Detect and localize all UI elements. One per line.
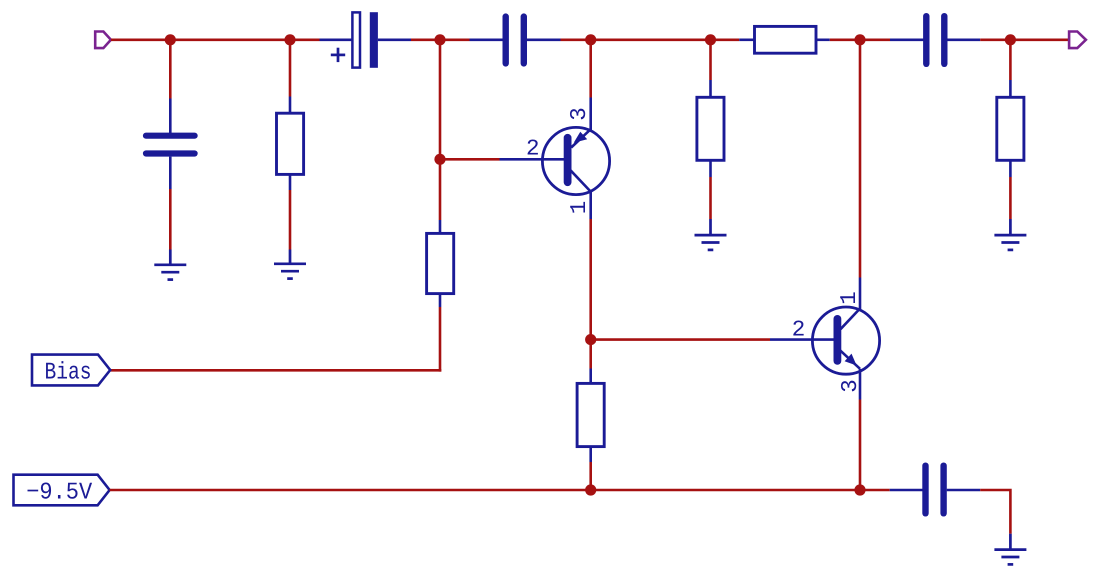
svg-text:−9.5V: −9.5V [26,480,93,507]
ground GND1 [154,250,186,280]
wire node H down [589,340,592,369]
wire pin stub R4 bottom [439,294,442,307]
resistor R4 body [427,233,454,293]
ground GND3 [695,219,727,250]
transistor Q1 base lead inside [542,158,567,161]
wire pin stub R3 right [816,38,830,41]
net label -9.5V box [14,475,110,506]
resistor R7 body [997,97,1024,160]
ground GND2 [274,250,306,279]
wire junction A down [169,40,172,99]
transistor Q1 body circle [542,127,609,194]
wire pin stub R4 top [439,220,442,234]
ground GND4 [994,219,1026,250]
wire C1 to C2 [411,38,470,41]
wire R2 to ground [289,190,292,250]
capacitor C1 polarized plus sign [331,48,345,62]
transistor Q1 emitter diagonal top [571,129,590,147]
wire pin stub R3 left [739,38,755,41]
wire pin stub R7 top [1009,80,1012,98]
transistor Q1 base bar [564,138,572,182]
wire R6 to bottom rail [589,462,592,490]
wire pin stub R5 bottom [709,160,712,177]
wire junction C down to node G [439,40,442,160]
wire pin stub C3 top [169,99,172,134]
wire pin stub R7 bottom [1009,160,1012,177]
transistor Q2 emitter diagonal bottom [840,350,860,369]
capacitor C5 left plate [923,16,929,64]
wire junction D down to Q1 collector [589,40,592,98]
svg-text:3: 3 [566,107,592,121]
wire junction F column kept above; right leg at x1010 [1009,40,1012,80]
wire R7 to ground [1009,177,1012,219]
wire pin stub R2 top [289,97,292,115]
wire node G to Q1 base [440,158,500,161]
junction E top rail x710 [705,34,716,45]
svg-text:1: 1 [566,201,592,215]
wire pin stub C5 left [890,38,924,41]
wire Bias horizontal [110,369,441,372]
wire R5 to ground [709,177,712,219]
wire pin stub Q2 pin1 [859,278,862,310]
svg-text:2: 2 [526,135,540,161]
wire junction E down [709,40,712,80]
transistor Q2 collector diagonal top [841,309,861,330]
wire pin stub C1 left [320,38,354,41]
junction A top rail x170 [165,34,176,45]
wire pin stub Q1 base [500,158,568,161]
wire bottom rail [110,489,890,492]
wire Q2 emitter down to bottom rail [859,400,862,491]
capacitor C1 hollow plate [352,12,360,67]
resistor R3 horizontal body [755,26,817,53]
wire pin stub Q2 pin3 [859,369,862,400]
wire C6 to ground corner [980,490,1010,534]
junction H x590 y340 [585,334,596,345]
capacitor C3 top plate [146,133,195,139]
transistor Q1 emitter arrow [574,132,588,143]
resistor R5 body [697,97,724,160]
wire R4 to Bias corner [439,307,442,372]
wire pin stub R2 bottom [289,174,292,190]
junction D top rail x590 [585,34,596,45]
wire node G down [439,159,442,220]
ground GND5 [994,534,1026,565]
wire pin stub C6 left [890,489,924,492]
transistor Q2 base lead inside [812,338,837,341]
wire pin stub C6 right [947,489,981,492]
wire Q1 emitter down to node H [589,219,592,340]
wire node H to Q2 base [591,338,770,341]
capacitor C2 right plate [521,17,527,64]
capacitor C5 right plate [941,16,947,64]
wire pin stub R5 top [709,80,712,98]
output port pin [1069,32,1086,49]
transistor Q2 body circle [812,307,879,374]
junction C top rail x440 [434,34,445,45]
svg-text:Bias: Bias [45,360,92,387]
wire pin stub R6 top [589,369,592,385]
transistor Q2 base bar [834,319,842,361]
junction G x440 y159 [434,154,445,165]
junction B top rail x290 [284,34,295,45]
svg-text:2: 2 [792,316,806,342]
junction F top rail x860 [854,34,865,45]
capacitor C6 right plate [940,466,946,514]
capacitor C1 filled plate [370,12,378,68]
wire C3 to ground [169,189,172,250]
input port pin [95,32,111,49]
capacitor C3 bottom plate [146,150,195,156]
wire pin stub C3 bottom [169,157,172,189]
junction K top rail x1010 [1005,34,1016,45]
wire pin stub C2 left [470,38,505,41]
wire pin stub C2 right [527,38,561,41]
resistor R6 body [577,383,604,446]
capacitor C2 left plate [503,17,509,64]
wire pin stub Q1 pin3 [589,98,592,132]
wire junction F down to Q2 pin1 [859,40,862,278]
net label Bias box [32,355,110,386]
transistor Q2 emitter arrow [845,354,857,366]
junction I bottom rail x590 [585,484,596,495]
wire pin stub R6 bottom [589,447,592,462]
wire junction B down [289,40,292,97]
wire pin stub C5 right [947,38,980,41]
wire top rail: input to C1 [111,38,320,41]
resistor R2 body [277,113,304,174]
svg-text:1: 1 [836,291,862,305]
wire C2 to R3 [561,38,740,41]
capacitor C6 left plate [922,466,928,514]
junction J bottom rail x860 [854,484,865,495]
wire C5 to output port [980,38,1069,41]
wire pin stub C1 right [378,38,411,41]
wire pin stub Q1 pin1 [589,192,592,220]
transistor Q1 collector diagonal bottom [570,170,590,191]
wire R3 to C5 [830,38,890,41]
wire pin stub Q2 base [770,338,837,341]
